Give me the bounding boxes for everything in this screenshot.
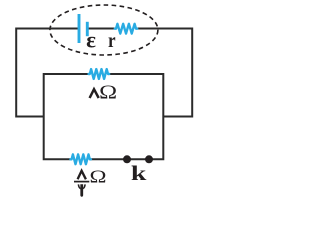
label fraction bar of 8/3 [74, 181, 89, 183]
wire: top edge between battery and resistor r [88, 28, 115, 30]
switch k: right contact dot [145, 155, 153, 163]
resistor 8/3 Ω (zigzag on bottom edge) [70, 154, 91, 164]
resistor r (internal resistance, zigzag) [115, 24, 137, 34]
switch k: left contact dot [123, 155, 131, 163]
label ۳ (Persian digit 3, denominator) [78, 184, 86, 197]
resistor 8Ω (zigzag on inner top edge) [89, 69, 110, 79]
svg-text:r: r [108, 30, 116, 52]
svg-text:ε: ε [86, 27, 96, 52]
wire: outer loop left side (top-left corner down to left connector) [16, 29, 79, 117]
source boundary (dashed ellipse around ε and r) [50, 5, 158, 55]
svg-text:Ω: Ω [90, 167, 107, 187]
label ۸ (numerator of fraction 8/3) [78, 171, 86, 180]
svg-text:Ω: Ω [99, 83, 117, 104]
label ۸ (Persian digit 8) of 8Ω [90, 89, 99, 98]
inner rectangle: right branch wire (top edge right part, right side, bottom edge right part) [90, 74, 163, 159]
battery ε (short plate) [86, 22, 89, 36]
battery ε (long plate) [78, 14, 81, 43]
svg-text:k: k [131, 161, 147, 185]
inner rectangle: left branch wire (top edge left part, left side, bottom edge left part) [44, 74, 89, 159]
wire: outer loop right side (from resistor r to top-right corner down to right connector) [137, 29, 192, 117]
